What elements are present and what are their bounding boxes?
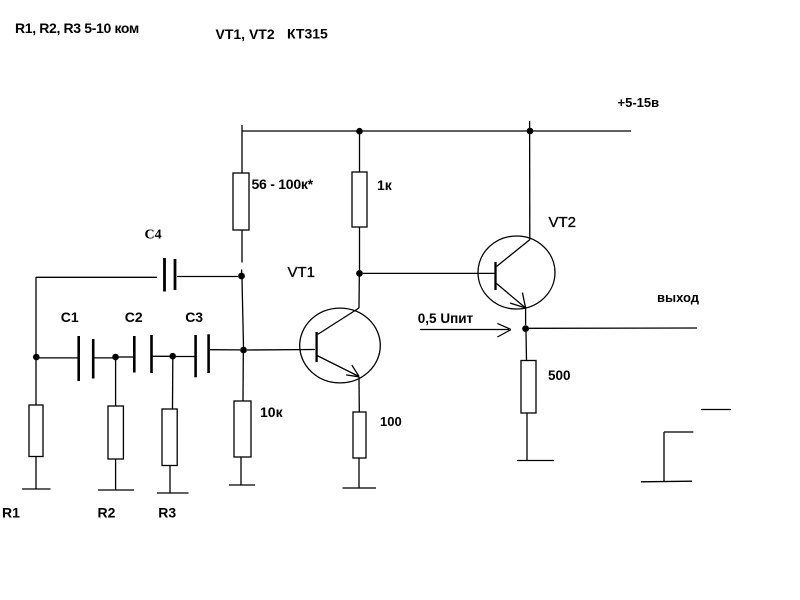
svg-text:R3: R3 [158, 505, 176, 521]
svg-text:VT1, VT2: VT1, VT2 [216, 26, 275, 42]
resistor 500 body [521, 361, 536, 414]
transistor VT1 emitter arrow barb 2 [346, 375, 359, 377]
transistor VT2 emitter arrow barb 1 [522, 293, 525, 308]
wire resistor 56-100k bottom to node A [241, 230, 243, 263]
resistor R3 body [162, 409, 177, 466]
svg-text:56 - 100к*: 56 - 100к* [252, 176, 314, 192]
wire resistor 1к bottom to node C [359, 227, 361, 270]
wire node R3 down to resistor R3 [172, 359, 174, 409]
svg-text:C3: C3 [185, 309, 203, 325]
wire rail left end down to resistor 56-100k (with overshoot stub) [241, 125, 243, 173]
wire node C to VT2 base [363, 272, 495, 274]
wire R1 node down to resistor R1 [35, 360, 37, 405]
wire node B down to resistor 10к [242, 353, 244, 401]
wire resistor 100 to ground [358, 458, 360, 488]
svg-text:100: 100 [380, 414, 402, 429]
wire VT1 emitter down to resistor 100 [358, 377, 360, 413]
svg-text:C1: C1 [61, 309, 79, 325]
wire power rail +5-15в [242, 130, 631, 132]
ground bar under R2 [98, 489, 134, 491]
wire resistor 10к to ground [240, 457, 242, 485]
waveform sketch rising edge vertical [663, 432, 665, 481]
wire node B to VT1 base [247, 349, 315, 352]
capacitor C3 left plate [194, 335, 197, 377]
wire output to the right [529, 327, 697, 329]
svg-text:C4: C4 [145, 228, 162, 243]
transistor VT1 circle [300, 308, 381, 383]
svg-text:VT1: VT1 [288, 264, 316, 281]
svg-text:R1, R2, R3 5-10 ком: R1, R2, R3 5-10 ком [15, 20, 139, 36]
arrow 0,5 Uпит shaft [420, 329, 509, 331]
transistor VT1 emitter arrow barb 1 [352, 365, 359, 376]
waveform sketch top-right high segment [701, 409, 731, 411]
wire left branch vertical down to R1 node [35, 277, 37, 354]
wire node R2 down to resistor R2 [115, 360, 117, 406]
transistor VT1 base bar [315, 332, 317, 362]
svg-text:R1: R1 [2, 505, 20, 521]
capacitor C2 right plate [150, 335, 153, 373]
resistor 56-100к* body [233, 173, 249, 230]
svg-text:+5-15в: +5-15в [618, 95, 660, 110]
wire node A down to node B [242, 279, 244, 347]
transistor VT2 base bar [494, 262, 496, 290]
waveform sketch pulse top segment [664, 431, 693, 433]
wire VT1 collector up to node C [358, 276, 360, 308]
ground bar under R1 [22, 488, 51, 490]
capacitor C1 right plate [92, 339, 95, 379]
wire C3 to node B [210, 349, 240, 351]
wire node D down to resistor 500 [525, 332, 528, 361]
junction dot on rail above 1к [356, 128, 363, 135]
ground bar under R3 [157, 492, 189, 494]
capacitor C2 left plate [133, 336, 136, 373]
wire resistor R2 to ground [115, 459, 117, 490]
wire node R2 to capacitor C2 [118, 356, 133, 358]
capacitor C1 left plate [77, 336, 80, 381]
resistor R1 body [29, 405, 43, 457]
capacitor C3 right plate [207, 334, 210, 373]
transistor VT2 emitter diagonal [497, 284, 526, 309]
wire resistor R3 to ground [169, 466, 171, 494]
wire rail down to resistor 1к [359, 134, 361, 172]
svg-text:500: 500 [548, 368, 571, 383]
wire C4 right plate to node A [177, 276, 238, 278]
transistor VT2 circle [478, 236, 555, 309]
svg-text:0,5 Uпит: 0,5 Uпит [418, 311, 474, 326]
wire resistor R1 to ground [35, 457, 37, 490]
svg-text:C2: C2 [125, 309, 143, 325]
svg-text:КТ315: КТ315 [287, 26, 328, 42]
wire C2 to node R3 [153, 355, 171, 357]
wire node R3 to capacitor C3 [176, 356, 195, 358]
wire C1 to node R2 [95, 357, 114, 359]
svg-text:1к: 1к [377, 177, 393, 193]
wire C4 left segment from left branch [36, 276, 157, 278]
wire resistor 500 to ground [526, 413, 528, 460]
junction dot on rail above VT2 [527, 128, 534, 135]
transistor VT2 collector diagonal [497, 240, 531, 267]
node R3 junction dot [169, 353, 176, 360]
transistor VT1 collector diagonal [318, 308, 360, 335]
svg-text:10к: 10к [260, 404, 284, 420]
ground bar under 10к [229, 484, 255, 486]
resistor 10к body [234, 401, 251, 457]
wire VT2 collector up to rail (overshoot above rail) [529, 121, 531, 240]
svg-text:R2: R2 [98, 505, 116, 521]
resistor 1к body [352, 172, 367, 227]
node A junction dot (C4 / divider / base chain) [238, 273, 245, 280]
node B junction dot (VT1 base node) [240, 347, 247, 354]
capacitor C4 left plate [163, 258, 166, 292]
wire VT2 emitter down to node D [525, 308, 527, 325]
node C junction dot (VT1 collector / VT2 base) [356, 270, 363, 277]
wire R1 node to capacitor C1 [39, 357, 78, 359]
svg-text:выход: выход [657, 290, 700, 305]
ground bar under 100 [343, 487, 377, 489]
ground bar under 500 [517, 460, 554, 462]
node R1 junction dot [33, 354, 40, 361]
node D junction dot (output node) [522, 325, 529, 332]
svg-text:VT2: VT2 [549, 214, 577, 231]
capacitor C4 right plate [174, 259, 177, 290]
arrow 0,5 Uпит head [497, 323, 510, 337]
resistor 100 body [353, 412, 366, 458]
transistor VT2 emitter arrow barb 2 [510, 303, 526, 308]
transistor VT1 emitter diagonal [317, 356, 359, 377]
waveform sketch baseline segment [641, 480, 692, 483]
resistor R2 body [108, 406, 123, 459]
node R2 junction dot [112, 354, 119, 361]
